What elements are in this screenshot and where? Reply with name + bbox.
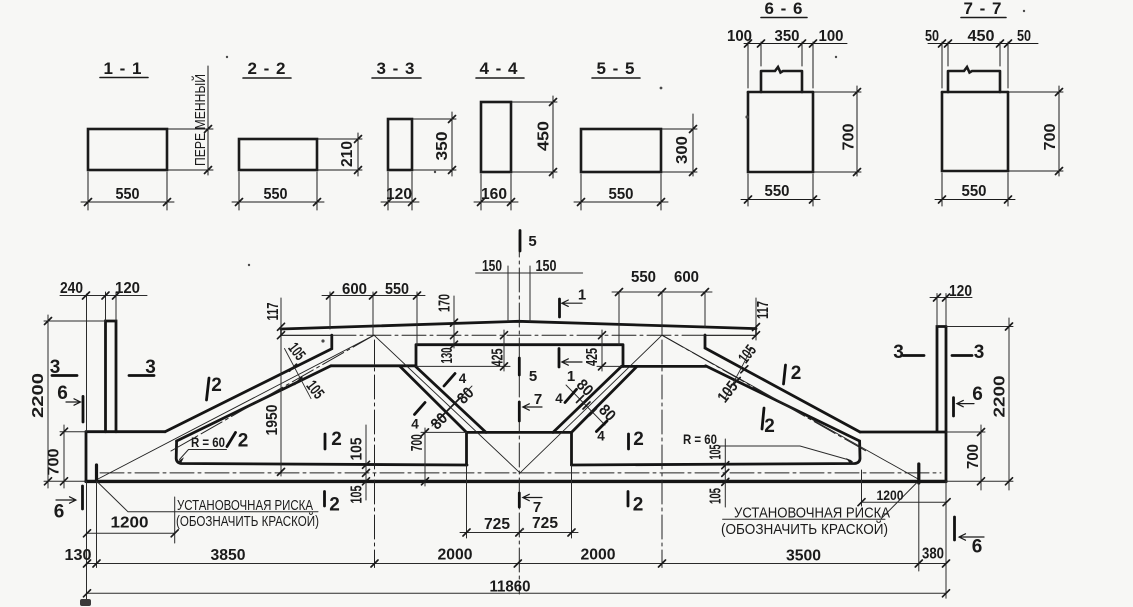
svg-text:6 - 6: 6 - 6 — [764, 0, 803, 18]
svg-text:700: 700 — [840, 123, 857, 150]
svg-text:2200: 2200 — [992, 375, 1009, 417]
svg-text:550: 550 — [765, 183, 790, 200]
svg-text:350: 350 — [775, 28, 800, 45]
svg-text:2: 2 — [633, 429, 644, 450]
svg-text:2200: 2200 — [30, 373, 47, 418]
svg-text:3: 3 — [974, 342, 985, 363]
svg-text:1200: 1200 — [877, 487, 904, 503]
svg-text:2: 2 — [329, 495, 340, 516]
svg-text:130: 130 — [65, 547, 92, 564]
svg-text:УСТАНОВОЧНАЯ РИСКА: УСТАНОВОЧНАЯ РИСКА — [177, 498, 313, 514]
svg-text:350: 350 — [434, 131, 451, 160]
svg-text:700: 700 — [409, 434, 426, 451]
svg-text:2: 2 — [211, 375, 222, 396]
svg-text:2: 2 — [633, 495, 644, 516]
svg-text:1: 1 — [578, 287, 586, 304]
svg-text:105: 105 — [708, 488, 725, 504]
svg-text:120: 120 — [386, 186, 412, 203]
svg-text:4: 4 — [459, 371, 467, 386]
svg-text:700: 700 — [965, 444, 982, 469]
svg-text:1200: 1200 — [111, 515, 149, 532]
svg-text:3: 3 — [50, 357, 61, 378]
svg-text:550: 550 — [116, 186, 140, 203]
svg-text:50: 50 — [925, 28, 939, 45]
svg-text:5: 5 — [529, 368, 537, 385]
svg-text:7: 7 — [533, 499, 541, 516]
svg-text:2: 2 — [764, 416, 775, 437]
svg-text:5 - 5: 5 - 5 — [596, 59, 635, 78]
svg-text:4: 4 — [555, 391, 563, 406]
svg-text:7 - 7: 7 - 7 — [963, 0, 1002, 18]
svg-text:ПЕРЕ МЕННЫЙ: ПЕРЕ МЕННЫЙ — [191, 74, 209, 166]
svg-text:3500: 3500 — [786, 548, 821, 565]
svg-text:6: 6 — [972, 384, 983, 405]
svg-text:210: 210 — [339, 141, 356, 167]
svg-text:1 - 1: 1 - 1 — [103, 59, 142, 78]
svg-text:7: 7 — [534, 391, 542, 408]
svg-text:100: 100 — [819, 28, 844, 45]
svg-text:300: 300 — [674, 136, 691, 164]
svg-text:117: 117 — [265, 302, 282, 320]
svg-text:3: 3 — [893, 342, 904, 363]
svg-text:425: 425 — [489, 348, 506, 366]
svg-text:УСТАНОВОЧНАЯ РИСКА: УСТАНОВОЧНАЯ РИСКА — [734, 506, 890, 522]
svg-text:11860: 11860 — [490, 579, 531, 596]
svg-text:550: 550 — [962, 183, 987, 200]
svg-text:3850: 3850 — [211, 547, 246, 564]
svg-text:150: 150 — [482, 258, 502, 275]
svg-text:50: 50 — [1017, 28, 1031, 45]
svg-text:R = 60: R = 60 — [191, 434, 225, 450]
svg-text:150: 150 — [536, 258, 557, 275]
svg-text:425: 425 — [584, 348, 601, 366]
svg-text:6: 6 — [57, 383, 68, 404]
svg-text:725: 725 — [532, 515, 558, 532]
svg-text:4: 4 — [411, 417, 419, 432]
svg-text:700: 700 — [1042, 123, 1059, 150]
svg-text:170: 170 — [437, 294, 454, 312]
svg-text:(ОБОЗНАЧИТЬ КРАСКОЙ): (ОБОЗНАЧИТЬ КРАСКОЙ) — [721, 520, 888, 538]
svg-text:550: 550 — [385, 281, 409, 298]
svg-text:(ОБОЗНАЧИТЬ КРАСКОЙ): (ОБОЗНАЧИТЬ КРАСКОЙ) — [176, 512, 319, 530]
svg-text:240: 240 — [60, 280, 83, 297]
svg-text:120: 120 — [115, 280, 140, 297]
svg-text:450: 450 — [968, 28, 995, 45]
svg-text:6: 6 — [54, 502, 65, 523]
svg-text:3 - 3: 3 - 3 — [376, 59, 415, 78]
svg-text:2000: 2000 — [438, 547, 473, 564]
svg-text:550: 550 — [631, 269, 656, 286]
svg-text:2: 2 — [331, 429, 342, 450]
svg-text:700: 700 — [46, 448, 63, 475]
svg-text:2: 2 — [791, 363, 802, 384]
svg-text:380: 380 — [922, 546, 944, 563]
svg-text:725: 725 — [484, 516, 510, 533]
svg-text:6: 6 — [972, 537, 983, 558]
svg-text:105: 105 — [349, 485, 366, 503]
svg-text:3: 3 — [145, 357, 156, 378]
svg-text:600: 600 — [674, 269, 699, 286]
svg-text:120: 120 — [949, 283, 972, 300]
svg-text:1: 1 — [567, 368, 575, 385]
svg-text:105: 105 — [349, 437, 366, 460]
svg-text:550: 550 — [264, 186, 288, 203]
svg-text:4: 4 — [597, 429, 605, 444]
svg-text:5: 5 — [528, 233, 536, 250]
svg-text:600: 600 — [342, 281, 367, 298]
svg-text:1950: 1950 — [264, 404, 281, 435]
svg-text:4 - 4: 4 - 4 — [479, 59, 518, 78]
svg-text:100: 100 — [727, 28, 752, 45]
svg-text:450: 450 — [536, 121, 553, 151]
svg-text:130: 130 — [439, 347, 456, 363]
svg-text:2 - 2: 2 - 2 — [247, 59, 286, 78]
svg-text:117: 117 — [755, 301, 772, 319]
svg-text:2000: 2000 — [581, 547, 616, 564]
svg-text:550: 550 — [609, 186, 634, 203]
svg-text:2: 2 — [238, 430, 249, 451]
svg-text:160: 160 — [481, 186, 507, 203]
svg-text:R = 60: R = 60 — [683, 431, 717, 447]
